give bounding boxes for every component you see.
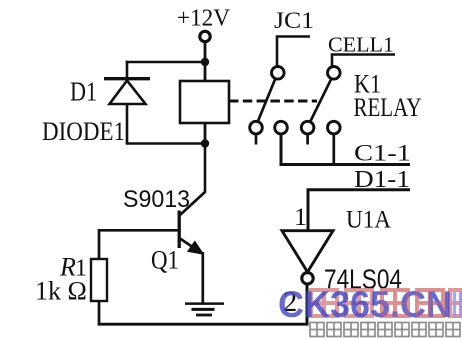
diode D1 cathode bar (104, 77, 150, 80)
transistor Q1 base bar (178, 211, 181, 249)
svg-text:DIODE1: DIODE1 (42, 117, 125, 146)
wire junction to collector (204, 144, 207, 193)
wire emitter to ground (201, 252, 204, 303)
stub wire contact A (255, 134, 258, 145)
wire junction to diode cathode (126, 61, 205, 64)
wire diode anode to junction (126, 142, 205, 145)
switch throw contact A (250, 121, 263, 134)
node junction bottom (201, 139, 209, 147)
svg-text:D1: D1 (70, 77, 97, 107)
wire D1-1 rail to inverter input (308, 190, 410, 230)
node +12V terminal (200, 31, 210, 41)
wire contact B to C1-1 rail (281, 134, 410, 165)
switch pole 2 common contact (328, 67, 341, 80)
watermark slogan pseudo chinese (310, 323, 460, 337)
switch pole 1 blade (258, 79, 276, 122)
op-amp U1A inverter triangle (282, 231, 333, 272)
wire inverter output to bottom rail (306, 284, 309, 326)
dashed relay actuator link (229, 100, 317, 103)
watermark light blue bars (455, 292, 461, 318)
switch throw contact C (301, 121, 314, 134)
wire JC1 lead (277, 37, 310, 67)
stub wire contact C (306, 134, 309, 145)
svg-text:+12V: +12V (177, 6, 231, 32)
transistor Q1 emitter arrow (188, 242, 203, 254)
wire bottom rail (98, 323, 309, 326)
wire relay coil bottom (204, 123, 207, 144)
wire CELL1 lead (332, 55, 395, 67)
watermark red chinese characters (311, 290, 462, 316)
svg-text:1k Ω: 1k Ω (35, 277, 87, 306)
ground (185, 304, 224, 315)
svg-text:C1-1: C1-1 (354, 141, 411, 166)
transistor Q1 collector lead (180, 192, 206, 216)
svg-text:RELAY: RELAY (354, 92, 422, 122)
wire from +12V terminal to relay coil top (204, 42, 207, 81)
wire base lead (99, 230, 178, 259)
watermark red overlay pass (382, 290, 443, 317)
svg-text:U1A: U1A (346, 207, 391, 234)
svg-text:CELL1: CELL1 (328, 33, 394, 57)
transistor Q1 emitter lead (180, 239, 197, 251)
svg-text:Q1: Q1 (151, 246, 179, 275)
relay coil K1 box (180, 81, 229, 123)
wire contact D drop (332, 134, 335, 165)
switch pole 2 blade (310, 79, 331, 122)
svg-text:1: 1 (294, 202, 307, 231)
svg-text:JC1: JC1 (274, 8, 314, 34)
op-amp U1A inverter bubble (302, 273, 313, 284)
node junction top (201, 58, 209, 66)
switch throw contact D (328, 121, 341, 134)
resistor R1 body (91, 259, 107, 301)
wire down to diode top (126, 61, 129, 80)
wire diode anode down (126, 104, 129, 144)
svg-text:S9013: S9013 (123, 186, 190, 213)
diode D1 triangle (110, 81, 146, 105)
wire resistor bottom (98, 301, 101, 326)
switch throw contact B (275, 121, 288, 134)
switch pole 1 common contact (272, 67, 285, 80)
